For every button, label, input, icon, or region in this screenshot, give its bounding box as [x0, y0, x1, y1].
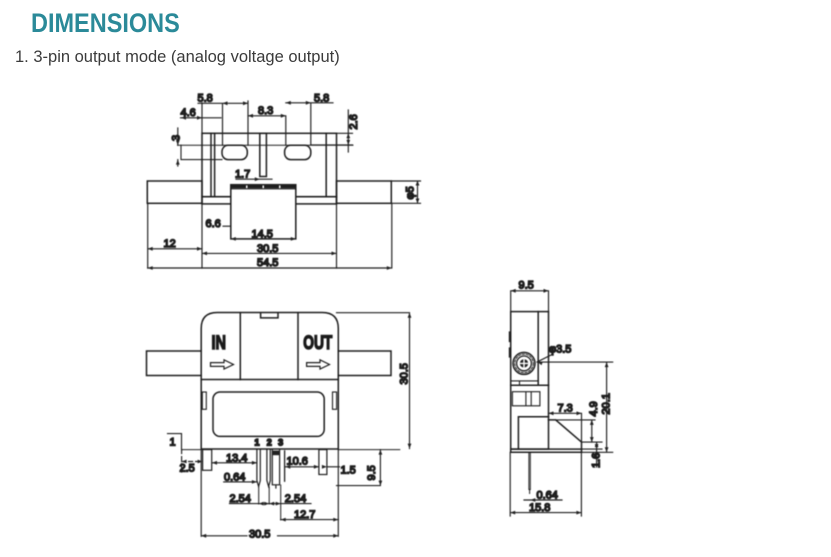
svg-text:2.54: 2.54 [230, 493, 251, 505]
side view inner vertical [537, 312, 539, 386]
dim 1.5 [327, 466, 340, 468]
svg-text:1: 1 [255, 438, 260, 448]
front view body outline [201, 313, 338, 450]
dim 4.6 [181, 103, 222, 134]
pin 1 [257, 450, 260, 487]
dim phi5 [391, 181, 420, 203]
dim 2.5 [182, 450, 203, 472]
front view left clip [202, 392, 206, 409]
dim 12.7 [281, 519, 339, 521]
dim 0.64 front [224, 481, 257, 483]
front view right tube [338, 351, 391, 376]
top view strip dashes [233, 185, 296, 188]
right foot [319, 450, 327, 475]
svg-text:4.9: 4.9 [588, 401, 600, 416]
svg-text:2.5: 2.5 [180, 463, 195, 475]
top view left tube [147, 181, 202, 203]
top view center pin [260, 133, 267, 176]
dim 4.9 [556, 420, 595, 442]
page title [31, 8, 180, 39]
left foot [203, 450, 212, 471]
top view bottom flange [202, 197, 337, 204]
pin 3 [284, 451, 286, 481]
svg-text:15.8: 15.8 [529, 502, 550, 514]
side view circle housing box bottom [511, 381, 539, 385]
dim 5.8 left [198, 101, 248, 145]
dim 30.5 front right [337, 313, 410, 449]
svg-text:7.3: 7.3 [558, 403, 573, 415]
svg-text:5.8: 5.8 [198, 93, 213, 105]
dim 12 [148, 204, 202, 269]
dim 2.54 right [269, 503, 311, 505]
svg-text:OUT: OUT [303, 332, 332, 354]
top view horizontal centerline [178, 144, 354, 146]
front view IN arrow [211, 360, 234, 369]
top view right mounting slot [285, 145, 311, 159]
dim 6.6 [223, 225, 231, 227]
dim 1.7 pin [236, 178, 272, 180]
svg-text:5.8: 5.8 [314, 93, 329, 105]
top view left tab [181, 145, 222, 159]
side view port middle ring [517, 356, 532, 371]
svg-text:8.3: 8.3 [258, 105, 273, 117]
side view left edge tabs [509, 333, 511, 357]
svg-text:14.5: 14.5 [252, 229, 273, 241]
front view left tube [147, 351, 202, 376]
front view display window [213, 392, 324, 436]
front view IN divider [239, 313, 241, 380]
dim 5.8 right [286, 103, 333, 145]
top view block top strip line [231, 188, 296, 190]
dim 15.8 [510, 452, 581, 516]
side view port screw head [520, 359, 528, 367]
dim 9.5 front [337, 450, 381, 486]
side view foot bracket [518, 417, 581, 453]
dim 8.3 [248, 116, 286, 145]
dimension arrowheads [148, 101, 609, 538]
dim 2.54 left [230, 503, 270, 505]
svg-text:IN: IN [212, 332, 227, 354]
svg-text:1.6: 1.6 [591, 453, 603, 468]
dim 54.5 [148, 204, 392, 269]
dim 20.1 [537, 362, 613, 452]
top view right tube [337, 181, 392, 203]
svg-text:2.54: 2.54 [285, 493, 306, 505]
svg-text:2: 2 [267, 438, 272, 448]
dim 30.5 top view [202, 204, 337, 268]
svg-text:6.6: 6.6 [206, 218, 221, 230]
front view mid horizontal line [201, 379, 338, 381]
bottom edge extensions [182, 449, 400, 451]
svg-text:1.7: 1.7 [235, 169, 250, 181]
dim 9.5 side [511, 291, 549, 312]
svg-text:1: 1 [170, 437, 176, 449]
svg-text:13.4: 13.4 [226, 452, 247, 464]
side view port screw slot [521, 360, 528, 367]
dim 13.4 [212, 462, 257, 464]
front view right clip [333, 392, 337, 409]
svg-text:9.5: 9.5 [519, 280, 534, 292]
svg-text:0.64: 0.64 [537, 490, 558, 502]
side view rail cells [512, 392, 540, 406]
svg-text:φ5: φ5 [405, 186, 417, 199]
dim 2.6 [311, 110, 353, 152]
dim 3 [177, 128, 179, 166]
side view bottom plate lines [511, 449, 582, 452]
top view bottom connector block [231, 185, 296, 239]
svg-text:0.64: 0.64 [224, 471, 245, 483]
dim 0.64 side [524, 499, 562, 501]
svg-text:54.5: 54.5 [257, 257, 278, 269]
svg-text:3: 3 [278, 438, 283, 448]
front view OUT arrow [307, 360, 330, 369]
pin extension lines [259, 485, 281, 520]
dim 7.3 [549, 413, 582, 442]
svg-text:12: 12 [164, 238, 176, 250]
side view body [511, 312, 549, 450]
pin key slot [272, 450, 279, 488]
svg-text:30.5: 30.5 [249, 529, 270, 541]
top view body outline [202, 133, 337, 196]
dim 10.6 [285, 466, 319, 468]
pin key dark cap [272, 451, 279, 456]
svg-text:30.5: 30.5 [257, 243, 278, 255]
pin 2 [267, 450, 270, 487]
svg-text:φ3.5: φ3.5 [549, 344, 571, 356]
svg-text:20.1: 20.1 [601, 393, 613, 414]
top view left inner wall lines [211, 133, 215, 196]
top view left mounting slot [222, 145, 247, 159]
side view pin [529, 452, 530, 493]
front view top notch [261, 313, 278, 318]
svg-text:12.7: 12.7 [294, 509, 315, 521]
side view horizontal line [511, 384, 549, 386]
svg-text:30.5: 30.5 [399, 363, 411, 384]
dim 1 leader [168, 434, 182, 450]
dim phi3.5 leader [538, 354, 554, 362]
subtitle [15, 48, 340, 67]
top view right inner wall line [325, 133, 327, 196]
side view port knurled outer ring [513, 352, 535, 374]
front view OUT divider [297, 313, 299, 380]
svg-text:3: 3 [171, 135, 183, 141]
dim 30.5 front bottom [201, 450, 338, 537]
svg-text:2.6: 2.6 [348, 114, 360, 129]
svg-text:1.5: 1.5 [341, 465, 356, 477]
dim 1.6 [582, 442, 603, 467]
svg-text:9.5: 9.5 [366, 465, 378, 480]
